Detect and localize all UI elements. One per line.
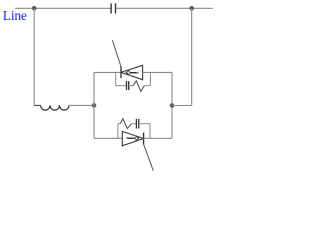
wire top rail left segment bbox=[15, 7, 111, 9]
wire inductor to left mid node bbox=[69, 104, 94, 106]
junction dot top-left bbox=[32, 6, 37, 11]
wire right mid horizontal bbox=[172, 105, 192, 107]
wire lower snubber top right bbox=[139, 123, 150, 125]
wire lower snubber left vertical bbox=[117, 124, 119, 139]
wire right outer vertical bbox=[191, 8, 193, 105]
junction dot right mid node bbox=[170, 103, 175, 108]
wire lower branch right bbox=[144, 137, 172, 139]
wire upper snubber bottom mid bbox=[129, 85, 133, 87]
wire upper snubber left vertical bbox=[115, 72, 117, 85]
capacitor C2 (upper snubber) bbox=[127, 81, 129, 90]
resistor R1 (upper snubber) bbox=[133, 81, 144, 92]
wire upper snubber bottom left bbox=[116, 85, 127, 87]
resistor R2 (lower snubber) bbox=[120, 119, 131, 129]
wire lower snubber right vertical bbox=[149, 124, 151, 139]
wire left vertical bbox=[33, 8, 35, 106]
junction dot top-right bbox=[189, 6, 194, 11]
wire upper snubber right vertical bbox=[149, 72, 151, 85]
junction dot left mid node bbox=[92, 103, 97, 108]
wire right branch vertical bbox=[171, 72, 173, 138]
thyristor SCR2 (lower, pointing right) bbox=[122, 131, 143, 145]
capacitor C3 (lower snubber) bbox=[136, 119, 138, 129]
wire gate upper bbox=[112, 40, 121, 67]
wire upper branch left bbox=[94, 71, 121, 73]
wire lower snubber top left bbox=[118, 123, 120, 125]
wire inductor left stub bbox=[34, 104, 40, 106]
wire left branch vertical bbox=[93, 72, 95, 138]
capacitor C1 (series line capacitor) bbox=[111, 3, 115, 13]
wire top rail right segment bbox=[116, 7, 214, 9]
wire gate lower bbox=[144, 145, 154, 171]
wire upper branch right bbox=[143, 71, 172, 73]
thyristor SCR1 (upper, pointing left) bbox=[121, 65, 143, 79]
svg-text:Line: Line bbox=[3, 8, 27, 23]
inductor L1 bbox=[41, 105, 69, 110]
wire lower snubber top mid bbox=[132, 123, 137, 125]
wire lower branch left bbox=[94, 137, 122, 139]
wire upper snubber bottom right bbox=[144, 85, 150, 87]
